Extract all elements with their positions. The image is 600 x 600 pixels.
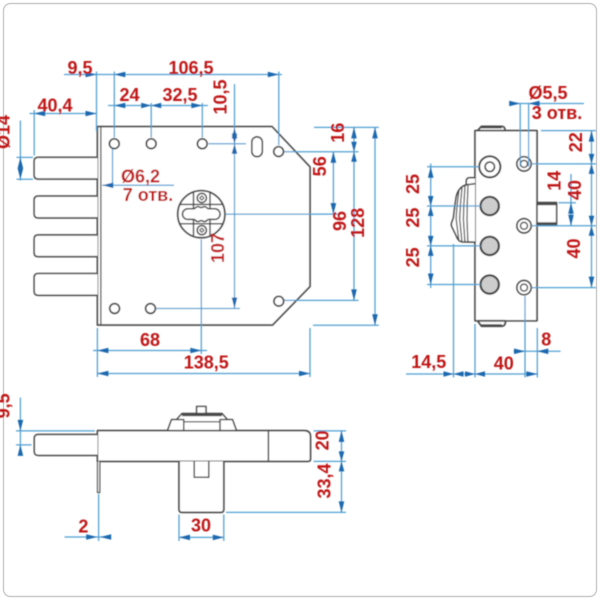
svg-text:8: 8 xyxy=(541,330,551,350)
ext line hole7 right xyxy=(285,299,359,301)
side small hole C xyxy=(517,280,531,294)
keyhole screw top xyxy=(197,193,206,202)
ext hole A right xyxy=(532,163,597,165)
arrows 8 xyxy=(514,349,525,355)
hole 6 bottom mid xyxy=(146,304,156,314)
ext side top edge right xyxy=(541,130,596,132)
cylinder right ear xyxy=(220,420,237,431)
ext bar bottom right xyxy=(314,460,347,462)
svg-text:7 отв.: 7 отв. xyxy=(123,185,173,205)
svg-text:22: 22 xyxy=(566,132,586,152)
cylinder platform xyxy=(175,414,230,431)
hole 1 xyxy=(109,139,119,149)
ext line hole3 up xyxy=(201,103,203,138)
ext line bolt1 top xyxy=(17,156,34,158)
svg-text:Ø5,5: Ø5,5 xyxy=(528,83,567,103)
svg-text:33,4: 33,4 xyxy=(315,463,335,498)
bottom bolt xyxy=(34,434,97,455)
arrows Ø5,5 xyxy=(509,101,520,107)
dim line 2 xyxy=(65,536,112,538)
arrows 10,5 / 107 xyxy=(232,127,238,138)
ext block left down xyxy=(178,515,180,542)
ext hole B right xyxy=(532,225,597,227)
keyhole cylinder circle xyxy=(178,191,225,238)
dim line 20 / 33,4 xyxy=(341,431,343,513)
arrows 9,5 xyxy=(86,72,97,78)
dim line 40,4 xyxy=(30,113,97,115)
ext line hole3 right xyxy=(209,143,247,145)
faceplate edge plate (2mm) xyxy=(98,461,100,492)
ext bar top right xyxy=(314,430,347,432)
faceplate inner line xyxy=(100,127,102,325)
side disc 2 xyxy=(481,237,499,255)
dim line Ø5,5 xyxy=(511,103,585,105)
svg-text:128: 128 xyxy=(348,208,368,238)
ext line body right down xyxy=(309,328,311,377)
side small hole A xyxy=(517,157,531,171)
bolt 3 xyxy=(34,235,97,257)
svg-text:10,5: 10,5 xyxy=(211,79,231,114)
keyhole chord bottom xyxy=(180,223,222,225)
hanging block xyxy=(179,461,224,512)
dim line Ø14 vertical xyxy=(19,121,21,181)
ext latch face down xyxy=(453,244,455,378)
keyhole band left xyxy=(193,192,195,236)
keyhole band right xyxy=(209,192,211,236)
arrows 14,5 / 40 bottom xyxy=(444,371,464,377)
svg-text:14: 14 xyxy=(544,171,564,191)
vertical slot xyxy=(252,137,262,157)
ext line hole1 up xyxy=(113,72,115,138)
arrows 14 xyxy=(568,203,574,214)
ext bolt axis xyxy=(16,444,32,446)
svg-text:Ø14: Ø14 xyxy=(0,115,14,149)
ext protrusion top xyxy=(559,202,577,204)
ext line hole4 right xyxy=(285,151,359,153)
ext Ø5,5 right xyxy=(528,104,530,167)
arrow leader Ø6,2 xyxy=(102,183,113,189)
side latch xyxy=(451,178,475,242)
bottom bar body xyxy=(97,431,310,462)
side small hole B xyxy=(517,219,531,233)
ext line body left corner up xyxy=(96,72,98,132)
svg-text:40: 40 xyxy=(565,180,585,200)
arrow 106,5 right xyxy=(268,72,279,78)
hole 3 xyxy=(197,139,207,149)
svg-text:Ø6,2: Ø6,2 xyxy=(121,167,160,187)
hole 2 xyxy=(146,139,156,149)
ext hole C right xyxy=(532,287,597,289)
ext line body left down xyxy=(96,328,98,377)
svg-text:107: 107 xyxy=(208,233,228,263)
ext body left down xyxy=(474,324,476,378)
dim line 10,5 / 107 vertical xyxy=(234,84,236,309)
ext ring hole left col xyxy=(427,166,479,168)
svg-text:9,5: 9,5 xyxy=(0,393,14,418)
dim line 138,5 xyxy=(97,373,310,375)
svg-text:68: 68 xyxy=(140,330,160,350)
svg-text:40: 40 xyxy=(494,354,514,374)
dim line 16 / 96 xyxy=(353,127,355,300)
ext hole col down xyxy=(524,296,526,378)
bolt 4 xyxy=(34,274,97,296)
keyhole screw bottom xyxy=(197,226,206,235)
ext line hole2 up xyxy=(150,103,152,138)
svg-text:16: 16 xyxy=(328,123,348,143)
svg-text:138,5: 138,5 xyxy=(184,353,229,373)
ext body right down xyxy=(536,328,538,378)
keyhole chord top xyxy=(180,203,222,205)
ext line hole6 right xyxy=(157,308,241,310)
dim line 30 xyxy=(179,536,224,538)
block U slot xyxy=(194,461,209,477)
bottom view arrows xyxy=(18,420,345,540)
svg-text:20: 20 xyxy=(313,430,333,450)
svg-text:96: 96 xyxy=(330,211,350,231)
cylinder top tab xyxy=(197,406,206,413)
dim line 9,5 vertical xyxy=(19,398,21,456)
svg-text:25: 25 xyxy=(403,208,423,228)
ext line keyhole right xyxy=(226,213,338,215)
ext plate down xyxy=(98,494,100,541)
svg-text:2: 2 xyxy=(78,517,88,537)
dim line 22 / 40 / 40 xyxy=(591,131,593,288)
arrows 16 / 96 xyxy=(351,127,357,138)
leader Ø6,2 horizontal xyxy=(102,184,174,186)
dim line 14,5 / 40 bottom xyxy=(406,373,538,375)
ext disc2 xyxy=(427,245,481,247)
svg-text:25: 25 xyxy=(403,174,423,194)
arrows 40,4 xyxy=(34,111,45,117)
svg-text:30: 30 xyxy=(191,516,211,536)
side bottom tab xyxy=(478,321,506,326)
bolt 2 xyxy=(34,196,97,218)
svg-text:32,5: 32,5 xyxy=(162,85,197,105)
bar divider xyxy=(267,431,269,462)
side view arrows xyxy=(428,101,594,377)
svg-text:40,4: 40,4 xyxy=(37,96,72,116)
latch contour lines xyxy=(456,185,468,242)
bolt 1 xyxy=(34,157,97,179)
arrows 128 xyxy=(372,127,378,138)
svg-text:56: 56 xyxy=(310,156,330,176)
ext line bolt left edge xyxy=(33,110,35,156)
side top tab xyxy=(478,126,505,130)
cylinder left ear xyxy=(168,420,184,431)
ext block right down xyxy=(223,515,225,542)
hole 7 bottom right xyxy=(274,296,284,306)
ext line body bottom right xyxy=(313,324,379,326)
side ring hole top xyxy=(479,156,500,177)
svg-text:14,5: 14,5 xyxy=(411,352,446,372)
dim line 68 xyxy=(93,350,207,352)
dim line 25 column xyxy=(430,164,432,289)
ext line bolt1 bottom xyxy=(17,178,34,180)
hole 5 bottom left xyxy=(110,304,120,314)
dim line 9,5 and 106,5 xyxy=(64,74,282,76)
arrows 24 / 32,5 xyxy=(114,103,125,109)
svg-text:40: 40 xyxy=(564,238,584,258)
arrows 30 xyxy=(179,535,190,541)
arrows 56 xyxy=(331,152,337,163)
ext Ø5,5 left xyxy=(519,104,521,167)
arrows 25 col xyxy=(428,167,434,178)
arrows Ø14 xyxy=(18,157,24,168)
ext disc1 xyxy=(427,205,481,207)
side disc 3 xyxy=(481,275,499,293)
hole 4 top right xyxy=(274,147,284,157)
arrows 22/40/40 col xyxy=(589,131,595,142)
lock body outline xyxy=(97,127,310,325)
dim line 14 xyxy=(570,174,572,226)
key slot xyxy=(183,207,221,222)
svg-text:24: 24 xyxy=(119,85,139,105)
dim line 56 xyxy=(332,152,334,214)
front view arrows xyxy=(18,72,378,377)
ext disc3 xyxy=(427,284,481,286)
svg-text:25: 25 xyxy=(403,247,423,267)
side body xyxy=(475,131,537,321)
arrows 138,5 xyxy=(97,371,108,377)
arrows 9,5 outside xyxy=(18,420,24,431)
arrows 68 xyxy=(97,348,108,354)
svg-text:9,5: 9,5 xyxy=(67,58,92,78)
ext line hole4 up xyxy=(278,72,280,146)
ext bar top left xyxy=(16,430,95,432)
leader Ø6,2 vertical xyxy=(112,149,114,186)
side disc 1 xyxy=(481,197,499,215)
side protrusion xyxy=(537,203,557,225)
svg-text:106,5: 106,5 xyxy=(168,58,213,78)
ext block bottom right xyxy=(226,511,346,513)
arrows 2 outside xyxy=(86,534,97,540)
dim line 128 xyxy=(374,127,376,325)
ext line keyhole down xyxy=(200,240,202,355)
dim line 8 xyxy=(514,350,561,352)
arrows 20 / 33,4 xyxy=(339,431,345,442)
ext line body top right xyxy=(314,126,379,128)
svg-text:3 отв.: 3 отв. xyxy=(532,103,582,123)
dim line 24 and 32,5 xyxy=(108,105,208,107)
